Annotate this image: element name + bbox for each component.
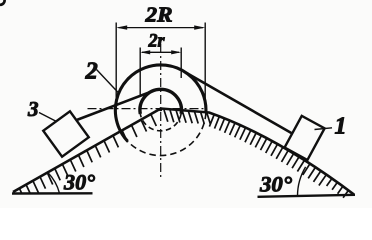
dimension 2R line with arrows	[119, 27, 204, 29]
right baseline	[258, 195, 356, 197]
dimension 2r line with arrows	[142, 51, 179, 53]
cord to block 3 (tangent to small drum)	[74, 91, 153, 121]
leader for label 1	[315, 128, 333, 130]
svg-text:2R: 2R	[144, 3, 172, 27]
left incline surface	[13, 109, 161, 193]
axle dot	[159, 108, 162, 111]
pulley outer circle solid arc	[115, 65, 206, 141]
leader for label 3	[39, 113, 57, 122]
leader for label 2	[97, 70, 120, 94]
svg-text:1: 1	[335, 114, 347, 140]
svg-text:2: 2	[85, 58, 98, 85]
svg-text:2r: 2r	[148, 31, 166, 52]
right incline hatching	[209, 115, 348, 198]
2R extension lines	[116, 23, 205, 111]
left baseline	[12, 192, 93, 195]
left 30 degree arc	[48, 173, 60, 194]
svg-text:30°: 30°	[259, 172, 292, 197]
right incline surface	[161, 109, 354, 195]
pulley outer circle hidden dashed arc	[128, 113, 206, 156]
pulley inner circle hidden dashed arc	[140, 114, 181, 131]
apex flat hatching	[164, 110, 210, 124]
vertical centerline	[160, 44, 162, 177]
2r extension lines	[140, 48, 181, 98]
svg-text:3: 3	[27, 97, 39, 121]
block 3	[43, 111, 89, 156]
block 1	[285, 116, 325, 160]
cord to block 1 (tangent to large drum)	[183, 71, 292, 134]
pulley inner circle solid arc	[140, 89, 181, 114]
right 30 degree arc	[298, 167, 306, 196]
corner letter b	[0, 0, 5, 5]
horizontal centerline	[88, 108, 208, 110]
left incline hatching	[19, 114, 156, 193]
svg-text:30°: 30°	[63, 170, 95, 195]
